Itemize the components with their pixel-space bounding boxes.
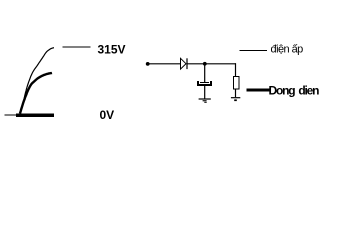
wire legend line for 315V (62, 46, 90, 47)
svg-text:Dong dien: Dong dien (269, 83, 320, 97)
wire input to diode anode (148, 63, 181, 65)
wire legend line for dien ap (voltage) (240, 50, 268, 51)
svg-text:0V: 0V (100, 108, 115, 122)
svg-text:điện ấp: điện ấp (271, 44, 304, 56)
wire capacitor to ground (204, 86, 206, 99)
wire junction down to capacitor (204, 64, 206, 83)
capacitor C1 top plate (200, 81, 209, 84)
ground (below capacitor) (199, 98, 211, 102)
wire current curve (thick) (20, 73, 52, 114)
wire thick legend line for Dong dien (current) (246, 89, 269, 92)
capacitor C1 bottom cup plate (197, 81, 212, 86)
wire voltage curve (thin, rises to 315V) (20, 48, 54, 114)
diode D1 cathode bar (186, 58, 188, 69)
resistor R1 body (234, 76, 239, 89)
wire diode cathode to resistor branch (187, 63, 236, 65)
svg-text:315V: 315V (98, 43, 126, 57)
wire (thin baseline extension left) (5, 115, 17, 116)
diode D1 triangle (181, 58, 187, 69)
wire resistor to ground (235, 89, 237, 97)
node 0V baseline (thick axis) (16, 114, 54, 117)
wire down to resistor (235, 63, 237, 76)
node junction dot (203, 62, 207, 66)
node input terminal dot (146, 62, 150, 66)
ground (below resistor) (231, 97, 240, 101)
